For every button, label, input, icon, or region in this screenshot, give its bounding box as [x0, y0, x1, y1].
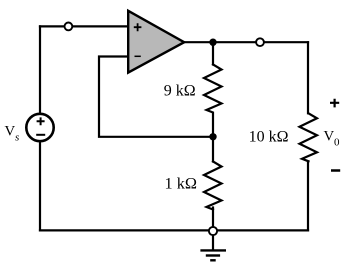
svg-text:1 kΩ: 1 kΩ [165, 173, 197, 192]
svg-text:0: 0 [334, 137, 340, 149]
svg-text:9 kΩ: 9 kΩ [164, 83, 196, 100]
svg-text:10 kΩ: 10 kΩ [249, 129, 289, 146]
svg-text:V: V [5, 124, 16, 140]
svg-text:s: s [15, 132, 19, 144]
svg-text:V: V [324, 128, 335, 144]
